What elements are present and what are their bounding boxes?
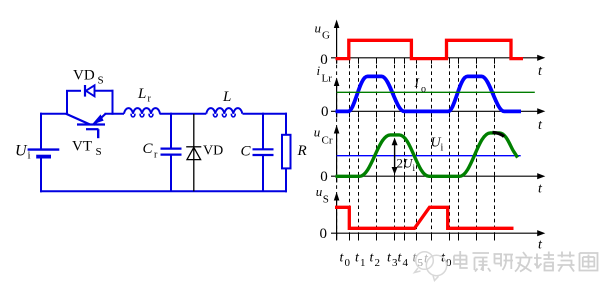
watermark ghost logo (two light bubbles) <box>415 252 447 281</box>
svg-text:u: u <box>315 21 322 36</box>
wire top-left horizontal (Ui top to transistor emitter node) <box>40 113 67 115</box>
svg-text:C: C <box>143 141 154 157</box>
transistor VTS: gate lead down <box>97 129 99 138</box>
svg-text:U: U <box>15 143 28 160</box>
panel 3 y-axis (uCr) <box>336 130 338 183</box>
wire diode-loop top left segment <box>66 90 81 92</box>
panel 2 y-axis (iLr) <box>336 82 338 118</box>
wire left vertical (Ui top lead) <box>40 113 42 150</box>
transistor VTS: body bar <box>77 123 105 125</box>
2Ui double arrow <box>394 141 396 171</box>
capacitor C: top lead <box>262 113 264 149</box>
svg-text:0: 0 <box>320 226 328 242</box>
voltage source Ui battery: long plate <box>28 148 60 150</box>
wire diode-loop top right segment <box>95 90 114 92</box>
wire left vertical bottom (Ui bottom lead) <box>40 157 42 193</box>
svg-text:i: i <box>317 63 321 78</box>
svg-text:r: r <box>148 94 152 105</box>
panel 1 y-axis (uG) <box>336 24 338 64</box>
capacitor C: top plate <box>253 148 274 150</box>
svg-text:r: r <box>154 150 158 161</box>
capacitor C: bottom plate <box>253 154 274 156</box>
transistor VTS: collector slant (right) <box>94 114 106 126</box>
solid tick marks below panel axes <box>337 58 495 183</box>
svg-text:L: L <box>222 89 231 105</box>
svg-text:Cr: Cr <box>322 135 333 147</box>
svg-text:VD: VD <box>73 68 95 84</box>
svg-text:0: 0 <box>320 169 328 185</box>
transistor VTS: gate bar <box>86 128 99 130</box>
diode VD: triangle pointing up (black outline) <box>187 147 201 159</box>
char dian <box>454 251 468 268</box>
svg-text:VT: VT <box>72 139 92 155</box>
watermark text 电源研发精英圈 (light gray) <box>451 249 601 279</box>
current iLr resonant curve (blue) <box>336 76 522 111</box>
voltage uCr resonant curve (green) <box>336 133 518 176</box>
char ying <box>558 252 575 272</box>
capacitor Cr: bottom plate <box>161 154 182 156</box>
panel 2 x-axis (t) <box>331 110 541 112</box>
svg-text:2: 2 <box>375 257 381 269</box>
panel 3 x-axis (t) <box>331 175 541 177</box>
svg-text:i: i <box>28 150 31 162</box>
svg-text:0: 0 <box>320 52 328 68</box>
transistor VTS: emitter slant (left) <box>66 114 90 125</box>
svg-text:S: S <box>98 75 104 87</box>
input voltage Ui level line (blue) <box>337 155 521 157</box>
wire top rail: Lr to L <box>160 113 207 115</box>
voltage source Ui battery: short thick plate <box>36 155 51 159</box>
solid tick marks below bottom axis <box>337 233 495 240</box>
resistor R: body rectangle <box>282 135 291 169</box>
svg-text:R: R <box>297 143 307 159</box>
diode VDS: triangle (points left) <box>86 85 95 96</box>
svg-text:G: G <box>322 30 330 42</box>
svg-text:I: I <box>414 75 420 90</box>
capacitor Cr: bottom lead <box>170 155 172 192</box>
svg-text:t: t <box>538 182 543 197</box>
svg-text:1: 1 <box>360 257 366 269</box>
wire diode-loop left vertical <box>66 91 68 115</box>
black cap on second uCr peak <box>493 132 505 136</box>
svg-text:o: o <box>421 84 426 95</box>
svg-text:t: t <box>538 118 543 133</box>
resistor R: bottom lead <box>285 168 287 192</box>
wire bottom rail <box>40 190 287 192</box>
char yan <box>494 254 514 270</box>
svg-text:t: t <box>538 64 543 79</box>
panel 4 y-axis (uS) <box>336 197 338 240</box>
resistor R: top lead <box>285 113 287 135</box>
svg-text:i: i <box>441 143 444 154</box>
capacitor C: bottom lead <box>262 156 264 192</box>
svg-text:Lr: Lr <box>322 73 333 85</box>
svg-text:L: L <box>137 86 146 102</box>
time labels t0 t1 t2 t3 t4 t0' <box>340 251 453 270</box>
diode VDS: cathode bar <box>84 85 86 97</box>
svg-text:0: 0 <box>345 257 351 269</box>
svg-text:u: u <box>314 125 321 140</box>
dashed time grid lines t0..t3' <box>337 58 495 241</box>
char quan <box>580 253 598 271</box>
diode VD: cathode bar (black) <box>186 146 201 148</box>
wire top rail: transistor to Lr <box>105 113 125 115</box>
waveform uG gate drive (red square wave) <box>336 40 524 58</box>
capacitor Cr: top plate <box>161 148 182 150</box>
svg-text:S: S <box>323 194 329 206</box>
char yuan <box>473 253 491 272</box>
svg-text:i: i <box>413 163 416 173</box>
wire top rail: L to R corner <box>243 113 288 115</box>
char fa <box>515 252 533 272</box>
wire diode-loop right vertical <box>112 90 114 115</box>
inductor L coil (4 bumps) <box>206 108 242 114</box>
diode VD: vertical branch wire (black) <box>193 114 195 191</box>
svg-text:S: S <box>96 146 102 158</box>
svg-text:VD: VD <box>203 144 223 159</box>
char jing <box>534 252 554 271</box>
svg-text:0: 0 <box>321 104 329 120</box>
capacitor Cr: top lead <box>170 113 172 148</box>
svg-text:C: C <box>241 144 252 160</box>
panel 4 x-axis (t) <box>331 232 541 234</box>
output current Io level line (green) <box>337 91 535 93</box>
transistor VTS: arrow on collector slant <box>92 114 104 124</box>
panel 1 x-axis (t) <box>331 57 541 59</box>
svg-text:u: u <box>316 184 323 199</box>
inductor Lr coil (4 bumps) <box>124 108 160 114</box>
voltage uS switch voltage (red) <box>335 207 514 228</box>
svg-text:4: 4 <box>403 257 409 269</box>
